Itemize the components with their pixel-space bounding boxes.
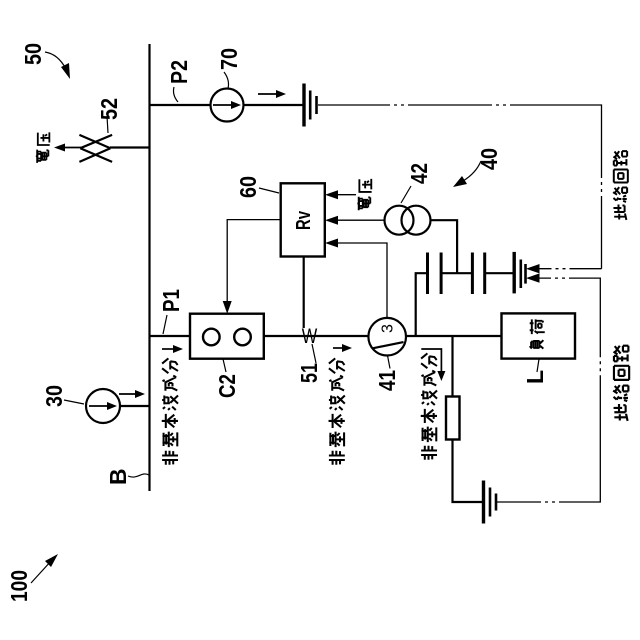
wire P1 mid (C2 to W) xyxy=(264,335,368,337)
arrowhead up at middle ground (bottom loop) xyxy=(526,273,540,282)
bent flow arrow at resistor branch xyxy=(421,349,441,371)
bottom ground xyxy=(482,481,485,524)
label 電圧 lower xyxy=(357,197,370,211)
svg-text:30: 30 xyxy=(41,385,67,407)
svg-text:52: 52 xyxy=(96,98,122,120)
svg-text:Rv: Rv xyxy=(293,210,315,230)
label 電圧 top xyxy=(36,150,49,163)
svg-text:40: 40 xyxy=(476,148,502,170)
wire 42 to cap tap xyxy=(431,220,458,273)
label 非基本波成分 (second) xyxy=(329,451,345,465)
leader 51 xyxy=(312,344,316,363)
wire 41 to load xyxy=(406,335,502,337)
svg-text:100: 100 xyxy=(6,570,32,602)
resistor branch wire left xyxy=(453,440,483,503)
leader L xyxy=(537,359,539,372)
svg-text:W: W xyxy=(302,325,318,348)
middle ground xyxy=(513,252,516,294)
bus B wire xyxy=(148,44,150,491)
wire 41 to Rv with arrow xyxy=(329,243,387,318)
ground for P2 branch xyxy=(302,84,305,127)
arrow for 100 xyxy=(31,560,52,583)
chord in 41 xyxy=(372,342,404,348)
capacitor Ca plates xyxy=(426,253,429,295)
leader C2 xyxy=(223,359,226,372)
ground-fault path from bottom ground (dash-dot) xyxy=(497,278,600,502)
wire 42 to Rv with arrow xyxy=(329,219,385,221)
arrow for 50 xyxy=(45,52,66,69)
load box L xyxy=(502,313,576,358)
leader P1 xyxy=(163,315,167,334)
svg-text:L: L xyxy=(522,370,548,384)
label 地絡回路 (right) xyxy=(613,204,626,219)
svg-text:P1: P1 xyxy=(158,289,184,312)
label 非基本波成分 (third) xyxy=(421,446,437,460)
wire P1 upper xyxy=(150,335,191,337)
wire P1 to capacitor branch xyxy=(416,273,428,336)
wire W to Rv xyxy=(303,257,305,329)
leader B xyxy=(128,474,149,477)
label 地絡回路 (left) xyxy=(614,404,628,421)
wire VT to arrow xyxy=(64,147,81,149)
regulator Rv box 60 xyxy=(281,183,325,256)
wire P2 branch lower xyxy=(244,104,303,106)
wire between capacitors xyxy=(441,272,472,274)
arrow inside 70 xyxy=(213,104,233,106)
flow arrow near 70 xyxy=(258,93,278,95)
transformer 42 circles xyxy=(385,206,414,235)
flow arrow near 30 xyxy=(119,393,137,395)
svg-text:B: B xyxy=(105,468,131,485)
wire Cb to middle ground xyxy=(485,272,513,274)
flow arrow below W xyxy=(333,347,344,349)
leader 42 xyxy=(401,186,411,203)
CT C2 circles xyxy=(203,329,220,346)
label 負荷 xyxy=(530,340,544,348)
VT 52 symbol xyxy=(79,135,112,162)
current source 30 circle xyxy=(86,389,120,423)
arrowhead up at middle ground (top loop) xyxy=(526,264,540,273)
arrow for 40 xyxy=(463,161,481,181)
svg-text:P2: P2 xyxy=(166,60,192,84)
leader P2 xyxy=(174,87,179,102)
leader 60 xyxy=(259,188,279,193)
wire 30 stub xyxy=(120,405,150,407)
leader 30 xyxy=(64,400,84,404)
feedback wire Rv to C2 xyxy=(227,220,281,309)
current source 70 circle xyxy=(211,89,244,122)
svg-text:50: 50 xyxy=(20,43,46,65)
label 非基本波成分 (first) xyxy=(162,451,178,465)
leader 70 xyxy=(224,72,229,89)
leader 41 xyxy=(388,356,391,369)
svg-text:51: 51 xyxy=(296,363,322,383)
wire P2 branch upper xyxy=(150,104,211,106)
arrow 電圧 into Rv xyxy=(329,194,356,196)
svg-text:42: 42 xyxy=(406,163,432,184)
arrow inside 30 xyxy=(89,405,109,407)
ground-fault path from P2 ground (dash-dot) xyxy=(318,105,602,269)
flow arrow near P1 xyxy=(162,348,175,350)
svg-text:3: 3 xyxy=(380,324,397,333)
svg-text:41: 41 xyxy=(374,370,400,391)
capacitor Cb plates xyxy=(471,253,474,295)
VT 52 stub wire xyxy=(110,146,150,148)
leader 52 xyxy=(107,116,108,133)
CT C2 box xyxy=(190,314,264,359)
svg-text:C2: C2 xyxy=(214,374,240,398)
svg-text:60: 60 xyxy=(235,176,261,198)
svg-text:70: 70 xyxy=(216,48,242,70)
detector 41 circle xyxy=(368,318,406,356)
resistor branch wire right xyxy=(451,336,453,397)
resistor rect xyxy=(446,397,460,440)
